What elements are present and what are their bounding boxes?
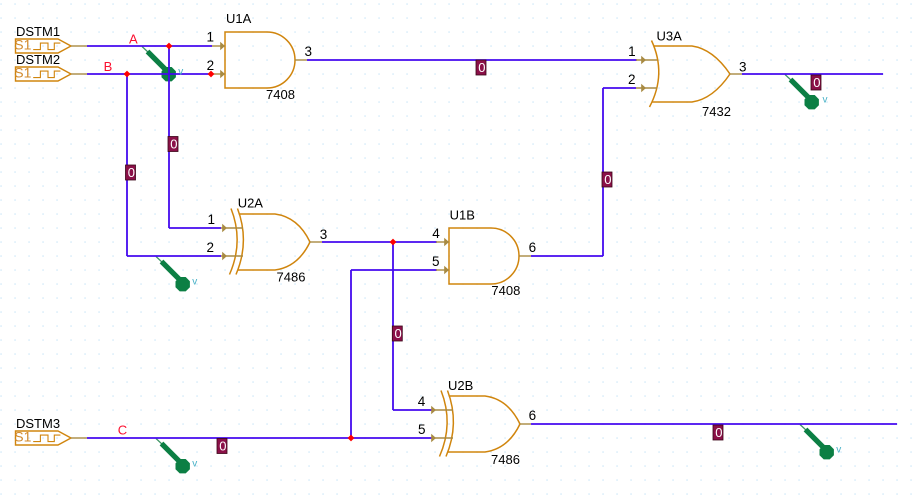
- wire vertical up to U3A pin2: [602, 88, 604, 256]
- logic value box 0 on U3A output net: [811, 75, 821, 90]
- U2B pin5 stub and arrow: [431, 434, 453, 442]
- svg-text:7432: 7432: [702, 104, 731, 119]
- svg-text:S1: S1: [14, 65, 31, 81]
- voltage probe V2 on U2A pin2 net: [156, 257, 190, 292]
- logic value box 0 on net B vertical: [126, 165, 136, 180]
- voltage probe V1 on net A: [142, 47, 176, 82]
- svg-text:7486: 7486: [277, 270, 306, 285]
- junction on net C: [348, 435, 355, 442]
- AND gate U1B body 7408: [449, 228, 519, 284]
- wire U2A output to U1B pin4: [322, 241, 437, 243]
- U1B output pin stub: [519, 255, 531, 257]
- svg-text:0: 0: [813, 75, 820, 90]
- DSTM1 output pin stub: [71, 45, 87, 47]
- wire net A vertical drop: [168, 46, 170, 228]
- U1A pin2 stub and arrow: [212, 70, 225, 78]
- digital stimulus DSTM1 symbol: [16, 39, 72, 53]
- wire vertical net C to U1B pin5: [350, 270, 352, 438]
- wire net B to U2A pin2: [127, 255, 221, 257]
- logic value box 0 on U2A output vertical: [392, 326, 402, 341]
- svg-text:2: 2: [207, 240, 215, 255]
- svg-text:1: 1: [207, 30, 215, 45]
- wire U3A output: [742, 73, 883, 75]
- svg-text:U1B: U1B: [450, 208, 475, 223]
- svg-text:0: 0: [715, 425, 722, 440]
- wire net A to U2A pin1: [169, 227, 221, 229]
- svg-text:3: 3: [320, 227, 328, 242]
- svg-text:S1: S1: [14, 429, 31, 445]
- svg-text:2: 2: [207, 58, 215, 73]
- U2A pin2 stub and arrow: [221, 252, 243, 260]
- XOR gate U2B body 7486: [440, 391, 521, 457]
- svg-text:0: 0: [219, 439, 226, 454]
- svg-text:B: B: [104, 59, 113, 74]
- svg-text:DSTM2: DSTM2: [16, 52, 60, 67]
- digital stimulus DSTM3 symbol: [16, 431, 72, 445]
- junction on U2A output net: [390, 239, 397, 246]
- AND gate U1A body 7408: [225, 32, 295, 88]
- svg-text:v: v: [836, 444, 841, 455]
- svg-text:U2B: U2B: [448, 378, 473, 393]
- svg-text:A: A: [129, 32, 138, 47]
- junction on net B near U1A pin2: [208, 71, 215, 78]
- U2A output pin stub: [310, 241, 322, 243]
- U3A output pin stub: [730, 73, 742, 75]
- wire U2B output: [531, 423, 897, 425]
- U1A pin1 stub and arrow: [212, 42, 225, 50]
- DSTM3 output pin stub: [71, 437, 87, 439]
- wire net B vertical drop: [126, 74, 128, 256]
- U3A pin1 stub and arrow: [636, 56, 657, 64]
- wire U1B pin5 horizontal: [351, 269, 437, 271]
- voltage probe V4 on U3A output net: [785, 75, 819, 110]
- svg-text:v: v: [823, 94, 828, 105]
- voltage probe V5 on U2B output net: [800, 425, 834, 460]
- U1A output pin stub: [295, 59, 307, 61]
- wire vertical U2A output to U2B pin4: [392, 242, 394, 410]
- svg-text:5: 5: [432, 254, 440, 269]
- svg-text:7408: 7408: [491, 283, 520, 298]
- svg-text:6: 6: [529, 408, 537, 423]
- wire net A horizontal DSTM1 to U1A pin1: [87, 45, 212, 47]
- logic value box 0 on U1B output vertical: [602, 172, 612, 187]
- wire U1B output horizontal: [531, 255, 603, 257]
- U3A pin2 stub and arrow: [636, 84, 657, 92]
- svg-text:C: C: [118, 423, 127, 438]
- svg-text:5: 5: [418, 422, 426, 437]
- U2B pin4 stub and arrow: [431, 406, 453, 414]
- svg-text:7408: 7408: [266, 87, 295, 102]
- wire horizontal into U3A pin2: [603, 87, 636, 89]
- svg-text:U2A: U2A: [238, 196, 264, 211]
- U1B pin4 stub and arrow: [436, 238, 449, 246]
- svg-text:DSTM3: DSTM3: [16, 416, 60, 431]
- svg-text:v: v: [192, 276, 197, 287]
- svg-text:v: v: [192, 458, 197, 469]
- svg-text:3: 3: [739, 60, 747, 75]
- svg-text:7486: 7486: [491, 452, 520, 467]
- digital stimulus DSTM2 symbol: [16, 67, 72, 81]
- svg-text:S1: S1: [14, 37, 31, 53]
- svg-text:4: 4: [418, 394, 426, 409]
- logic value box 0 on U1A output net: [476, 60, 486, 75]
- svg-text:2: 2: [628, 72, 636, 87]
- svg-text:0: 0: [478, 60, 485, 75]
- wire horizontal into U2B pin4: [393, 409, 432, 411]
- svg-text:1: 1: [628, 44, 636, 59]
- logic value box 0 on U2B output net: [713, 425, 723, 440]
- svg-text:U1A: U1A: [226, 11, 252, 26]
- logic value box 0 on net C: [217, 439, 227, 454]
- junction on net B at vertical drop: [124, 71, 131, 78]
- svg-text:v: v: [178, 66, 183, 77]
- svg-text:U3A: U3A: [657, 29, 683, 44]
- logic value box 0 on net A vertical: [168, 137, 178, 152]
- svg-text:0: 0: [395, 326, 402, 341]
- U2B output pin stub: [520, 423, 531, 425]
- svg-text:0: 0: [170, 137, 177, 152]
- U2A pin1 stub and arrow: [221, 224, 243, 232]
- OR gate U3A body 7432: [650, 41, 731, 108]
- svg-text:6: 6: [529, 240, 537, 255]
- wire net C horizontal DSTM3 to U2B pin5: [87, 437, 432, 439]
- XOR gate U2A body 7486: [230, 209, 311, 275]
- voltage probe V3 on net C: [156, 439, 190, 474]
- svg-text:3: 3: [305, 44, 313, 59]
- svg-text:1: 1: [208, 212, 216, 227]
- DSTM2 output pin stub: [71, 73, 87, 75]
- wire U1A output to U3A pin1: [307, 59, 637, 61]
- svg-text:DSTM1: DSTM1: [16, 24, 60, 39]
- wire net B horizontal DSTM2 to U1A pin2: [87, 73, 212, 75]
- svg-text:0: 0: [128, 165, 135, 180]
- svg-text:4: 4: [432, 226, 440, 241]
- junction on net A: [166, 43, 173, 50]
- svg-text:0: 0: [604, 172, 611, 187]
- U1B pin5 stub and arrow: [436, 266, 449, 274]
